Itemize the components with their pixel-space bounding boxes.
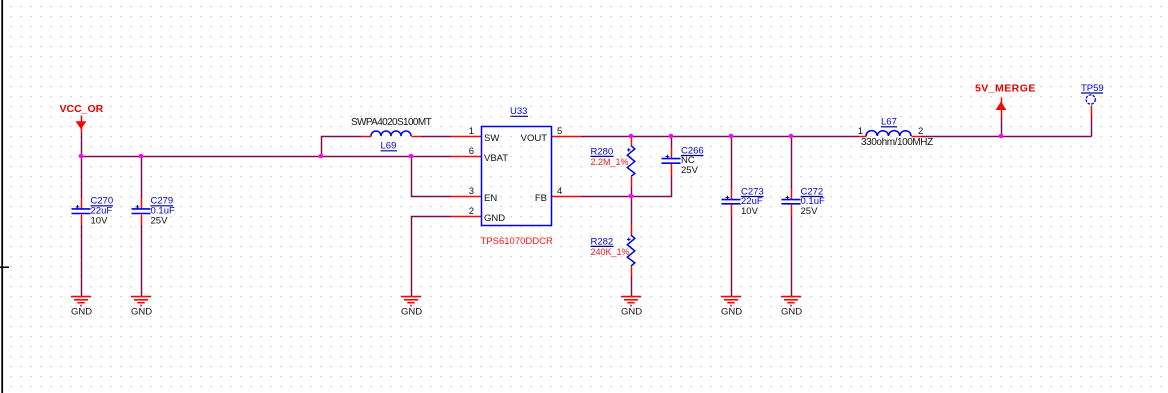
svg-text:5V_MERGE: 5V_MERGE: [975, 82, 1036, 94]
node VCC bus / C270: [79, 154, 84, 159]
svg-text:25V: 25V: [801, 206, 819, 217]
pin U33.6 VBAT stub: [452, 156, 481, 158]
wire C272 upper drop: [791, 137, 793, 189]
svg-text:U33: U33: [510, 106, 527, 117]
svg-text:4: 4: [557, 186, 562, 197]
wire riser from bus up to SW line: [322, 137, 363, 157]
node VOUT / C272: [789, 134, 794, 139]
svg-text:10V: 10V: [741, 206, 759, 217]
pin C266 bottom stub: [671, 164, 673, 175]
pin C273 top stub: [731, 189, 733, 200]
svg-text:240K_1%: 240K_1%: [591, 247, 630, 257]
node bus / riser: [319, 154, 324, 159]
svg-text:2.2M_1%: 2.2M_1%: [591, 157, 629, 167]
svg-text:25V: 25V: [151, 216, 169, 227]
svg-text:VOUT: VOUT: [521, 133, 548, 144]
pin C270 bottom stub: [81, 215, 83, 225]
wire VOUT main line: [581, 136, 859, 138]
resistor R282: [627, 235, 635, 266]
wire L67 output segment: [921, 136, 1092, 138]
wire R280 bottom to FB node: [631, 187, 633, 197]
pin C279 top stub: [141, 199, 143, 209]
wire VBAT bus horizontal: [81, 156, 452, 158]
pin U33.5 VOUT stub: [552, 136, 581, 138]
wire C279 lower to GND: [141, 225, 143, 297]
sheet border left edge: [0, 0, 9, 393]
node VOUT / C266: [669, 134, 674, 139]
pin U33.1 SW stub: [452, 136, 481, 138]
node VOUT / R280: [629, 134, 634, 139]
pin L69.2 stub: [412, 136, 422, 138]
svg-text:3: 3: [469, 186, 474, 197]
capacitor C279: [132, 205, 151, 214]
svg-text:6: 6: [469, 146, 474, 157]
svg-text:L67: L67: [881, 117, 897, 128]
pin C279 bottom stub: [141, 215, 143, 225]
ground under R282: [621, 297, 641, 306]
wire C266 bottom drop to FB line: [671, 175, 673, 197]
svg-text:25V: 25V: [681, 165, 699, 176]
svg-text:L69: L69: [381, 141, 397, 152]
svg-text:1: 1: [858, 126, 863, 137]
wire C270 upper drop: [81, 157, 83, 199]
node bus / C279: [139, 154, 144, 159]
ground under C270: [71, 297, 91, 306]
pin R282 top stub: [631, 225, 633, 236]
ground under C279: [131, 297, 151, 306]
wire C272 lower to GND: [791, 216, 793, 297]
svg-text:R280: R280: [591, 146, 614, 157]
capacitor C266: [662, 155, 681, 164]
svg-text:GND: GND: [621, 307, 642, 318]
node FB / R282: [629, 194, 634, 199]
svg-text:SWPA4020S100MT: SWPA4020S100MT: [351, 117, 432, 128]
node VOUT / C273: [729, 134, 734, 139]
wire 5V_MERGE stem: [1001, 118, 1003, 137]
pin R282 bottom stub: [631, 267, 633, 277]
ground under C273: [721, 297, 741, 306]
wire VCC_OR stem down to bus: [81, 133, 83, 157]
pin L67.1 stub: [859, 136, 867, 138]
designator U33: [510, 106, 528, 117]
ground under U33 GND pin: [401, 297, 421, 306]
node bus / EN tie: [409, 154, 414, 159]
wire C266 top from junction: [671, 137, 673, 148]
designator L67: [881, 117, 897, 128]
pin R280 top stub: [631, 137, 633, 147]
svg-text:EN: EN: [484, 193, 497, 204]
svg-text:GND: GND: [721, 307, 742, 318]
pin C273 bottom stub: [731, 205, 733, 216]
capacitor C270: [72, 205, 91, 214]
svg-text:GND: GND: [71, 307, 92, 318]
test point TP59 circle: [1086, 95, 1095, 104]
pin C270 top stub: [81, 199, 83, 209]
pin U33.2 GND stub: [452, 216, 481, 218]
svg-text:TPS61070DDCR: TPS61070DDCR: [481, 236, 553, 247]
svg-text:GND: GND: [781, 307, 802, 318]
ground under C272: [781, 297, 801, 306]
resistor R280: [627, 146, 635, 177]
wire R282 top from FB node: [631, 197, 633, 225]
svg-text:TP59: TP59: [1081, 83, 1104, 94]
svg-text:R282: R282: [591, 236, 614, 247]
pin TP59 stub: [1091, 105, 1093, 116]
wire TP59 drop: [1091, 116, 1093, 137]
op-amp U33 body: [482, 127, 552, 226]
wire C279 upper drop: [141, 157, 143, 199]
svg-text:1: 1: [469, 126, 474, 137]
svg-text:10V: 10V: [91, 216, 109, 227]
svg-text:GND: GND: [484, 213, 505, 224]
svg-text:VCC_OR: VCC_OR: [60, 103, 104, 115]
svg-text:5: 5: [557, 126, 562, 137]
wire C273 upper drop: [731, 137, 733, 189]
svg-text:2: 2: [918, 126, 923, 137]
wire R282 bottom to GND: [631, 277, 633, 297]
pin U33.3 EN stub: [452, 196, 481, 198]
svg-text:GND: GND: [131, 307, 152, 318]
pin L67.2 stub: [912, 136, 922, 138]
inductor L67 coil: [866, 131, 911, 136]
power port VCC_OR arrow: [76, 116, 87, 134]
node 5V_MERGE: [999, 134, 1004, 139]
svg-text:SW: SW: [484, 133, 499, 144]
capacitor C273: [722, 196, 741, 204]
designator TP59: [1081, 83, 1104, 94]
capacitor C272: [782, 196, 801, 204]
wire GND pin to ground symbol: [412, 217, 453, 297]
svg-text:VBAT: VBAT: [484, 153, 508, 164]
wire EN tie to VBAT bus: [412, 157, 453, 197]
wire C273 lower to GND: [731, 216, 733, 297]
pin R280 bottom stub: [631, 177, 633, 187]
wire FB line: [581, 196, 672, 198]
pin C266 top stub: [671, 148, 673, 159]
pin C272 top stub: [791, 189, 793, 200]
pin C272 bottom stub: [791, 205, 793, 216]
wire C270 lower to GND: [81, 225, 83, 297]
svg-text:2: 2: [469, 206, 474, 217]
svg-text:330ohm/100MHZ: 330ohm/100MHZ: [861, 137, 933, 148]
wire L69 to SW pin: [421, 136, 452, 138]
power port 5V_MERGE arrow: [996, 98, 1007, 118]
designator L69: [381, 141, 398, 152]
svg-text:GND: GND: [401, 307, 422, 318]
inductor L69 coil: [371, 131, 411, 136]
svg-text:FB: FB: [535, 193, 547, 204]
pin U33.4 FB stub: [552, 196, 581, 198]
pin L69.1 stub: [362, 136, 372, 138]
